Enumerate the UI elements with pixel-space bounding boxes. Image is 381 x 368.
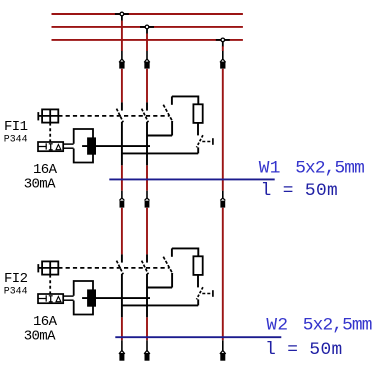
svg-text:16A: 16A [33,314,58,330]
wire cable W1 (blue) [109,178,274,180]
FI2 mechanical linkage (dashed) [58,267,169,269]
wire L1 phase segment 4 [121,208,123,255]
FI1 CT core (filled) [87,137,96,154]
FI2 trip link to sensor (dashed) [49,275,51,294]
FI1 test button contact [197,135,213,153]
node tap on L3 [216,38,230,47]
FI2 pole contact L1 fixed stub [121,254,123,262]
FI2 pole contact L1 lever [117,261,124,275]
wire FI2 test return line [122,304,198,306]
node tap on L2 [140,25,154,34]
svg-text:30mA: 30mA [24,329,56,345]
wire L2 phase segment 2 [146,69,148,103]
wire L2 phase segment 5 [146,317,148,340]
connector X1 L3 (plug and socket) [220,51,226,69]
wire FI2 test circuit top [172,248,198,256]
FI2 CT conductor line [82,297,150,299]
svg-text:l = 50m: l = 50m [265,340,343,360]
svg-text:W2: W2 [266,316,288,336]
FI1 test pole lever [163,105,172,122]
svg-text:l = 50m: l = 50m [261,181,339,201]
FI1 pole contact L1 lever [117,109,124,123]
RCD FI1 trip coil (crossed box) [38,109,58,122]
FI1 pole contact L1 fixed stub [121,102,123,110]
FI1 mechanical linkage (dashed) [58,115,169,117]
connector X3 L3 (plug and socket) [220,340,226,360]
FI2 CT core (filled) [87,289,96,306]
node tap on L1 [115,12,129,21]
FI1 CT conductor line [82,145,150,147]
svg-text:5x2,5mm: 5x2,5mm [303,316,372,336]
wire L1 phase segment 3 [121,165,123,190]
wire L1 phase segment 2 [121,69,123,103]
connector X1 L2 (plug and socket) [144,51,150,69]
bus line L1 [52,13,243,15]
FI1 trip link to sensor (dashed) [49,123,51,142]
wire cable W2 (blue) [115,336,281,338]
wire L1 phase segment 1 [121,21,123,51]
FI2 test resistor R [193,256,202,275]
FI2 test pole upper terminal [171,248,173,256]
wire L3 phase segment 3 [222,208,224,340]
FI2 test pole lever [163,257,172,274]
wire L2 phase segment 4 [146,208,148,255]
FI2 residual current sensor box I-delta [38,294,63,303]
wire FI2 test tap to L2 [147,287,172,289]
FI1 residual current sensor box I-delta [38,142,63,151]
wire FI1 test tap to L2 [147,135,172,137]
svg-text:P344: P344 [4,285,28,296]
wire L2 phase segment 1 [146,34,148,51]
wire L1 phase segment 5 [121,317,123,340]
svg-text:16A: 16A [33,162,58,178]
connector X2 L2 (plug and socket) [145,191,150,208]
wire L3 phase segment 2 [222,69,224,191]
FI1 pole contact L2 fixed stub [146,102,148,110]
FI2 summation current transformer outline [74,281,93,315]
svg-text:W1: W1 [259,159,281,179]
FI1 summation current transformer outline [74,129,93,163]
FI2 sensor to CT leads [63,296,73,300]
wire FI1 L2 lower terminal (black) [146,122,148,166]
bus line L2 [52,26,243,28]
wire FI2 resistor to test button [197,275,199,288]
FI1 test resistor R [193,104,202,123]
wire FI1 test return line [122,152,198,154]
connector X3 L1 (plug and socket) [119,340,125,360]
svg-text:5x2,5mm: 5x2,5mm [295,159,364,179]
FI1 sensor to CT leads [63,144,73,148]
svg-text:30mA: 30mA [24,177,56,193]
FI2 pole contact L2 lever [142,261,149,275]
wire FI1 resistor to test button [197,123,199,135]
connector X2 L1 (plug and socket) [119,191,124,208]
connector X3 L2 (plug and socket) [144,340,150,360]
wire FI2 L1 lower terminal (black) [121,274,123,318]
wire FI2 L2 lower terminal (black) [146,274,148,318]
connector X1 L1 (plug and socket) [119,51,125,69]
FI2 pole contact L2 fixed stub [146,254,148,262]
FI2 test pole lower terminal [171,273,173,288]
bus line L3 [52,39,243,41]
FI2 test button contact [197,287,213,305]
FI1 test pole upper terminal [171,96,173,104]
RCD FI2 trip coil (crossed box) [38,261,58,274]
wire L2 phase segment 3 [146,165,148,190]
wire FI1 L1 lower terminal (black) [121,122,123,166]
FI1 test pole lower terminal [171,121,173,136]
wire FI1 test circuit top [172,96,198,104]
svg-text:P344: P344 [4,133,28,144]
connector X2 L3 (plug and socket) [220,191,225,208]
wire L3 phase segment 1 [222,46,224,51]
FI1 pole contact L2 lever [142,109,149,123]
